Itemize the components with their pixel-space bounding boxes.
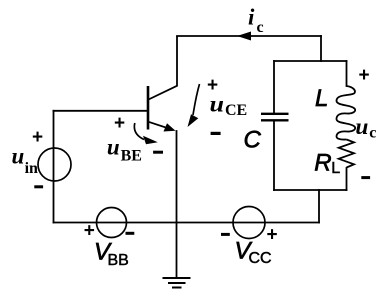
resistor R_L bbox=[339, 140, 354, 168]
capacitor C bbox=[261, 114, 289, 121]
minus u_BE bbox=[153, 151, 163, 154]
source V_BB bbox=[97, 208, 127, 238]
label u_in bbox=[12, 144, 39, 178]
label V_CC bbox=[235, 237, 272, 267]
wire bottom bus bbox=[54, 222, 320, 224]
svg-text:L: L bbox=[315, 85, 328, 112]
svg-text:+: + bbox=[207, 75, 218, 96]
svg-text:+: + bbox=[114, 113, 125, 134]
wire ground stem bbox=[176, 223, 178, 278]
label V_BB bbox=[94, 238, 129, 269]
label i_c bbox=[248, 5, 264, 37]
label u_BE bbox=[107, 135, 142, 165]
svg-text:i: i bbox=[248, 5, 255, 30]
svg-text:in: in bbox=[25, 160, 38, 177]
wire tank bottom bbox=[274, 189, 347, 191]
svg-text:+: + bbox=[32, 127, 43, 148]
svg-text:L: L bbox=[331, 160, 340, 177]
minus u_CE bbox=[211, 132, 221, 135]
label u_CE bbox=[210, 92, 248, 119]
wire resistor bottom to tank bottom bbox=[346, 168, 348, 190]
svg-text:u: u bbox=[12, 144, 25, 169]
current arrow i_c bbox=[237, 32, 251, 41]
wire inductor branch top bbox=[346, 61, 348, 86]
wire left vertical bbox=[53, 111, 55, 223]
svg-text:+: + bbox=[84, 221, 95, 242]
svg-text:+: + bbox=[359, 65, 370, 86]
minus tank bbox=[361, 176, 370, 179]
svg-text:CC: CC bbox=[249, 250, 272, 267]
svg-text:CE: CE bbox=[225, 102, 247, 119]
wire tank top bbox=[274, 60, 347, 62]
wire top (collector to tank) bbox=[177, 35, 321, 37]
svg-text:u: u bbox=[355, 114, 368, 139]
inductor L bbox=[336, 86, 355, 140]
source V_CC bbox=[233, 207, 265, 239]
arrow u_BE bbox=[134, 123, 157, 144]
wire right top vertical bbox=[320, 36, 322, 61]
svg-text:R: R bbox=[314, 150, 331, 177]
svg-text:u: u bbox=[107, 135, 120, 160]
minus V_BB bbox=[126, 232, 135, 235]
svg-text:c: c bbox=[369, 124, 376, 141]
svg-text:BE: BE bbox=[121, 148, 142, 165]
wire tank bottom to bus bbox=[318, 190, 320, 223]
wire base bbox=[54, 110, 149, 112]
ground bbox=[163, 278, 191, 288]
svg-text:c: c bbox=[257, 19, 264, 36]
label u_c bbox=[355, 114, 376, 141]
wire emitter vertical bbox=[176, 131, 178, 223]
minus u_in bbox=[34, 185, 43, 188]
minus V_CC bbox=[221, 233, 230, 236]
svg-text:+: + bbox=[267, 225, 278, 246]
svg-text:BB: BB bbox=[108, 252, 129, 269]
source u_in bbox=[38, 148, 71, 181]
arrow u_CE bbox=[188, 84, 200, 127]
wire capacitor branch bottom bbox=[273, 121, 275, 190]
wire capacitor branch top bbox=[273, 61, 275, 113]
transistor Q1 bbox=[148, 36, 177, 132]
svg-text:C: C bbox=[244, 126, 262, 153]
label R_L bbox=[314, 150, 340, 177]
